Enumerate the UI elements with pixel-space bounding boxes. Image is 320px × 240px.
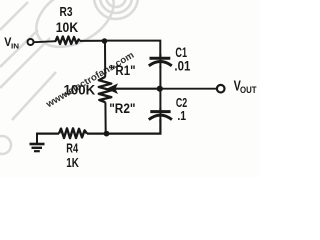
capacitor C2 bbox=[149, 108, 172, 121]
wire R2 bottom to node C bbox=[104, 102, 106, 133]
wire node B to Vout bbox=[162, 88, 217, 90]
wire node C to R4 bbox=[87, 133, 104, 135]
svg-text:10K: 10K bbox=[56, 20, 79, 35]
wire node A down to R1 bbox=[104, 41, 106, 77]
terminal Vin bbox=[28, 39, 34, 45]
resistor R4 bbox=[59, 128, 87, 138]
svg-text:IN: IN bbox=[11, 44, 19, 51]
wire R3 to node A bbox=[80, 40, 103, 42]
svg-text:"R1": "R1" bbox=[110, 63, 136, 78]
svg-text:"R2": "R2" bbox=[109, 101, 135, 116]
svg-text:OUT: OUT bbox=[240, 85, 257, 95]
wire wiper to node B bbox=[115, 88, 158, 90]
svg-text:R4: R4 bbox=[66, 141, 78, 156]
resistor R3 bbox=[56, 36, 80, 44]
wire Vin to R3 bbox=[34, 41, 56, 42]
wire node B to C2 bbox=[159, 89, 161, 110]
svg-text:.1: .1 bbox=[177, 108, 186, 123]
wire C1 to node B bbox=[159, 66, 161, 89]
ground bbox=[30, 133, 45, 152]
svg-text:1K: 1K bbox=[66, 155, 79, 170]
node C junction bbox=[104, 131, 110, 137]
wire node A to C1 (top rail) bbox=[105, 41, 161, 57]
terminal Vout bbox=[217, 85, 225, 93]
wire R4 to ground bbox=[37, 133, 59, 135]
wiper arrow bbox=[106, 83, 118, 94]
capacitor C1 bbox=[149, 54, 172, 68]
potentiometer R1/R2 bbox=[99, 77, 112, 103]
svg-text:R3: R3 bbox=[60, 5, 73, 19]
node B junction bbox=[157, 86, 163, 92]
node A junction bbox=[102, 38, 108, 44]
svg-text:.01: .01 bbox=[174, 59, 190, 74]
svg-text:100K: 100K bbox=[64, 81, 96, 97]
wire C2 to node C (bottom rail right) bbox=[108, 120, 160, 134]
